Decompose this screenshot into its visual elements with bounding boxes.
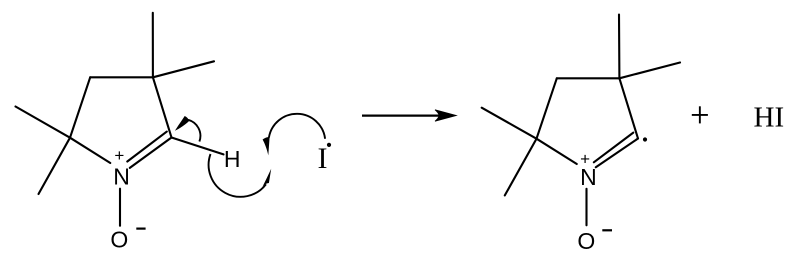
- wire C5-N: [70, 138, 110, 163]
- svg-text:N: N: [113, 163, 130, 189]
- reaction arrow: [362, 110, 456, 121]
- iodine radical dot: [327, 143, 331, 147]
- wire C2-C3: [153, 77, 172, 137]
- curved arrow A3: fishhook from iodine radical electron, pointing down: [263, 114, 326, 156]
- wire C3'-C4' top edge: [557, 77, 620, 79]
- wire methyl on C5 up-left: [16, 107, 71, 138]
- svg-text:O: O: [577, 228, 595, 254]
- node O1 minus charge: [136, 228, 145, 230]
- svg-text:HI: HI: [754, 102, 785, 134]
- svg-text:H: H: [224, 146, 241, 172]
- wire methyl on C3 vertical: [152, 13, 154, 78]
- svg-text:+: +: [114, 146, 124, 165]
- wire N=C2 double bond inner line: [127, 132, 167, 162]
- wire N-O bond: [119, 189, 121, 226]
- wire C2-H bond: [172, 138, 224, 155]
- curved arrow A1: fishhook from C-H bond onto C2: [175, 116, 200, 142]
- svg-text:I: I: [318, 142, 328, 175]
- wire N=C2 double bond main line: [130, 138, 172, 168]
- curved arrow A2: fishhook from C-H bond sweeping under H, pointing up: [209, 154, 272, 197]
- node O2 minus charge: [602, 229, 612, 231]
- wire methyl on C5' down-left: [505, 139, 537, 196]
- wire methyl on C3' vertical: [618, 15, 621, 79]
- wire C4-C5: [70, 77, 90, 137]
- wire methyl on C5 down-left: [39, 138, 71, 194]
- plus sign between products: [692, 106, 708, 123]
- wire N'=C2' double bond inner line: [594, 133, 634, 163]
- wire C4'-C5': [537, 78, 557, 138]
- wire C5'-N': [537, 139, 577, 164]
- wire methyl on C3 up-right: [153, 61, 214, 77]
- wire methyl on C3' up-right: [619, 63, 680, 79]
- wire N'-O' bond: [585, 189, 587, 226]
- wire methyl on C5' up-left: [482, 108, 537, 139]
- svg-text:O: O: [110, 227, 128, 253]
- svg-text:+: +: [580, 149, 590, 168]
- wire C3-C4 top edge: [90, 76, 153, 78]
- wire N'=C2' double bond main line: [596, 139, 638, 168]
- wire C2'-C3': [619, 78, 638, 138]
- radical dot on C2': [643, 137, 647, 141]
